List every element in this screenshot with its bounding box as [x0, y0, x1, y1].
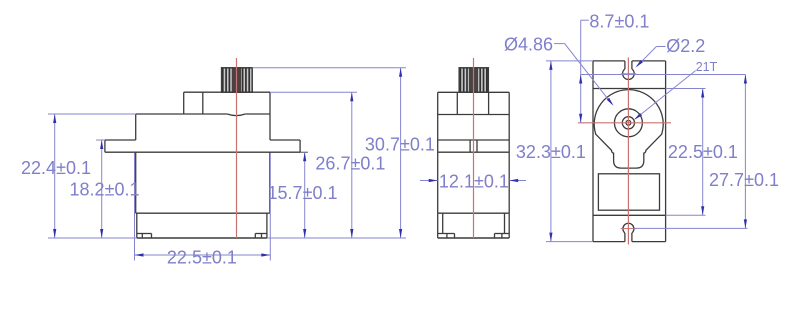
svg-text:15.7±0.1: 15.7±0.1 — [268, 183, 338, 203]
svg-text:27.7±0.1: 27.7±0.1 — [709, 170, 779, 190]
svg-text:30.7±0.1: 30.7±0.1 — [365, 135, 435, 155]
svg-text:8.7±0.1: 8.7±0.1 — [589, 12, 649, 32]
svg-text:32.3±0.1: 32.3±0.1 — [516, 142, 586, 162]
svg-text:18.2±0.1: 18.2±0.1 — [70, 180, 140, 200]
svg-text:Ø4.86: Ø4.86 — [504, 35, 553, 55]
svg-text:22.5±0.1: 22.5±0.1 — [167, 248, 237, 268]
svg-text:21T: 21T — [696, 60, 718, 74]
svg-text:12.1±0.1: 12.1±0.1 — [439, 172, 509, 192]
svg-text:Ø2.2: Ø2.2 — [666, 36, 705, 56]
svg-text:22.4±0.1: 22.4±0.1 — [21, 158, 91, 178]
svg-text:22.5±0.1: 22.5±0.1 — [668, 142, 738, 162]
svg-text:26.7±0.1: 26.7±0.1 — [315, 154, 385, 174]
